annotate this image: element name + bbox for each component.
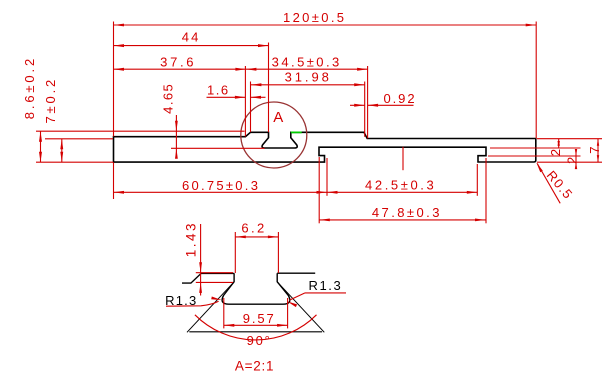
extension line x=319.2 (47.8 left) bbox=[318, 157, 320, 223]
svg-text:1.6: 1.6 bbox=[207, 83, 230, 98]
detail circle A bbox=[241, 102, 307, 168]
svg-text:34.5±0.3: 34.5±0.3 bbox=[272, 54, 342, 69]
extension line y=148.3 (4.65 bottom / slot floor) bbox=[171, 147, 265, 149]
extension line y=138.8 (7 top) bbox=[45, 138, 113, 140]
svg-text:1.43: 1.43 bbox=[184, 221, 199, 257]
dimension 44 bbox=[114, 45, 269, 47]
extension line right end x=536.2 bbox=[535, 22, 537, 139]
detail: left construction diagonal (45deg) bbox=[187, 282, 234, 333]
svg-text:9.57: 9.57 bbox=[243, 311, 276, 326]
extension line x=250.5 (31.98) bbox=[250, 82, 252, 133]
detail: angle baseline bbox=[189, 331, 322, 333]
detail: right surface line bbox=[277, 272, 315, 274]
svg-text:R1.3: R1.3 bbox=[308, 278, 342, 293]
svg-text:A: A bbox=[273, 109, 283, 126]
extension line x=327 (60.75/42.5) bbox=[326, 158, 328, 196]
dimension 42.5±0.3 bbox=[327, 191, 477, 193]
dimension 2 (step, right) bbox=[575, 149, 577, 169]
extension line left end (top) bbox=[113, 22, 115, 137]
svg-text:A=2:1: A=2:1 bbox=[235, 359, 274, 374]
dimension 37.6 bbox=[114, 68, 246, 70]
detail dimension 1.43 bbox=[200, 224, 202, 296]
svg-text:8.6±0.2: 8.6±0.2 bbox=[22, 56, 37, 119]
extension line x=245.4 (37.6/34.5) bbox=[244, 66, 246, 137]
dimension 1.6 bbox=[207, 96, 246, 98]
detail dimension 6.2 bbox=[234, 232, 236, 273]
detail: left surface line with break bbox=[182, 273, 234, 283]
svg-text:2: 2 bbox=[548, 148, 563, 157]
svg-text:120±0.5: 120±0.5 bbox=[283, 10, 346, 25]
dimension 47.8±0.3 bbox=[319, 219, 485, 221]
dimension 7 (right end height) bbox=[597, 139, 599, 162]
svg-text:31.98: 31.98 bbox=[285, 69, 332, 84]
radius leader R0.5 bbox=[537, 163, 560, 203]
dimension 31.98 bbox=[251, 84, 365, 86]
extension line y=148 right side bbox=[490, 147, 581, 149]
extension line y=131.2 (8.6 top) bbox=[36, 130, 245, 132]
svg-text:42.5±0.3: 42.5±0.3 bbox=[365, 178, 436, 193]
extension line x=268.5 (44, slot left wall) bbox=[268, 43, 270, 133]
extension line x=367.6 (34.5/0.92) bbox=[367, 66, 369, 138]
dimension 7±0.2 bbox=[61, 139, 63, 162]
green highlight segment on slot right shoulder bbox=[291, 131, 302, 133]
extension line y=162.2 right side bbox=[537, 161, 602, 163]
extension line left end (bottom) bbox=[113, 162, 115, 199]
part outline (extrusion profile, main view) bbox=[114, 132, 536, 162]
dimension 60.75±0.3 bbox=[114, 191, 328, 193]
detail: 90 degree arc bbox=[195, 315, 317, 340]
extension line y=156 right side bbox=[488, 155, 581, 157]
detail dimension 9.57 bbox=[223, 298, 225, 328]
extension line y=138.7 right side bbox=[537, 138, 602, 140]
dimension 34.5±0.3 bbox=[246, 68, 368, 70]
svg-text:4.65: 4.65 bbox=[160, 83, 175, 114]
svg-text:7: 7 bbox=[587, 145, 602, 154]
dimension 8.6±0.2 bbox=[40, 131, 42, 162]
svg-text:44: 44 bbox=[182, 30, 201, 45]
extension line x=364.7 (31.98/0.92) bbox=[364, 82, 366, 137]
svg-text:37.6: 37.6 bbox=[160, 54, 196, 69]
dimension 0.92 bbox=[350, 104, 365, 106]
svg-text:7±0.2: 7±0.2 bbox=[43, 77, 58, 124]
dimension 4.65 bbox=[175, 115, 177, 155]
svg-text:47.8±0.3: 47.8±0.3 bbox=[372, 205, 442, 220]
svg-text:6.2: 6.2 bbox=[241, 220, 266, 235]
extension line x=486 (47.8 right) bbox=[485, 158, 487, 223]
witness line x=403 at web bottom bbox=[402, 147, 404, 170]
detail: slot groove profile bbox=[222, 273, 290, 304]
extension line x=477.3 (42.5 right) bbox=[476, 164, 478, 196]
svg-text:60.75±0.3: 60.75±0.3 bbox=[182, 178, 260, 193]
svg-text:90°: 90° bbox=[247, 333, 272, 348]
svg-text:2: 2 bbox=[565, 155, 580, 164]
dimension 120±0.5 bbox=[114, 24, 537, 26]
dimension 2 (web thickness, right) bbox=[558, 139, 560, 148]
detail: right construction diagonal (45deg) bbox=[277, 282, 324, 333]
extension line y=162.2 bottom-left bbox=[36, 161, 113, 163]
svg-text:0.92: 0.92 bbox=[383, 91, 416, 106]
